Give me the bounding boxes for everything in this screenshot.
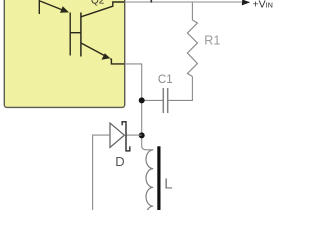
+V arrowhead	[242, 0, 250, 5]
junction stub (cut off)	[150, 0, 152, 3]
node A junction dot	[139, 97, 145, 103]
resistor R1	[187, 20, 197, 77]
transistor Q1 base bar (cut off at top)	[38, 0, 40, 14]
wire node B to diode cathode	[126, 134, 142, 136]
transistor Q1 emitter arrow	[40, 1, 69, 13]
inductor L coil	[146, 150, 153, 225]
wire R1 to C1	[168, 77, 193, 101]
svg-text:Q2: Q2	[91, 0, 105, 7]
wire Q1 emitter to Q2 base	[69, 13, 71, 56]
diode D triangle	[110, 123, 124, 147]
transistor Q2 base bar	[80, 13, 82, 57]
wire base connector	[70, 32, 81, 34]
svg-text:D: D	[115, 154, 124, 169]
diode D schottky cathode bar	[122, 122, 130, 151]
wire +V to R1	[191, 2, 193, 20]
node B junction dot	[139, 132, 145, 138]
svg-text:L: L	[164, 175, 172, 192]
wire C1 to node A	[142, 99, 164, 101]
transistor Q2 emitter	[81, 43, 125, 64]
inductor core bar	[157, 146, 160, 210]
capacitor C1	[163, 88, 167, 113]
svg-text:C1: C1	[158, 74, 173, 86]
wire collector to +V	[125, 1, 250, 3]
transistor Q2 collector	[81, 2, 125, 17]
wire diode anode to bottom	[93, 135, 110, 210]
highlight box	[4, 0, 124, 107]
wire Q2 emitter to inductor	[125, 64, 154, 150]
svg-text:R1: R1	[204, 33, 220, 47]
svg-text:+VIN: +VIN	[253, 0, 273, 10]
